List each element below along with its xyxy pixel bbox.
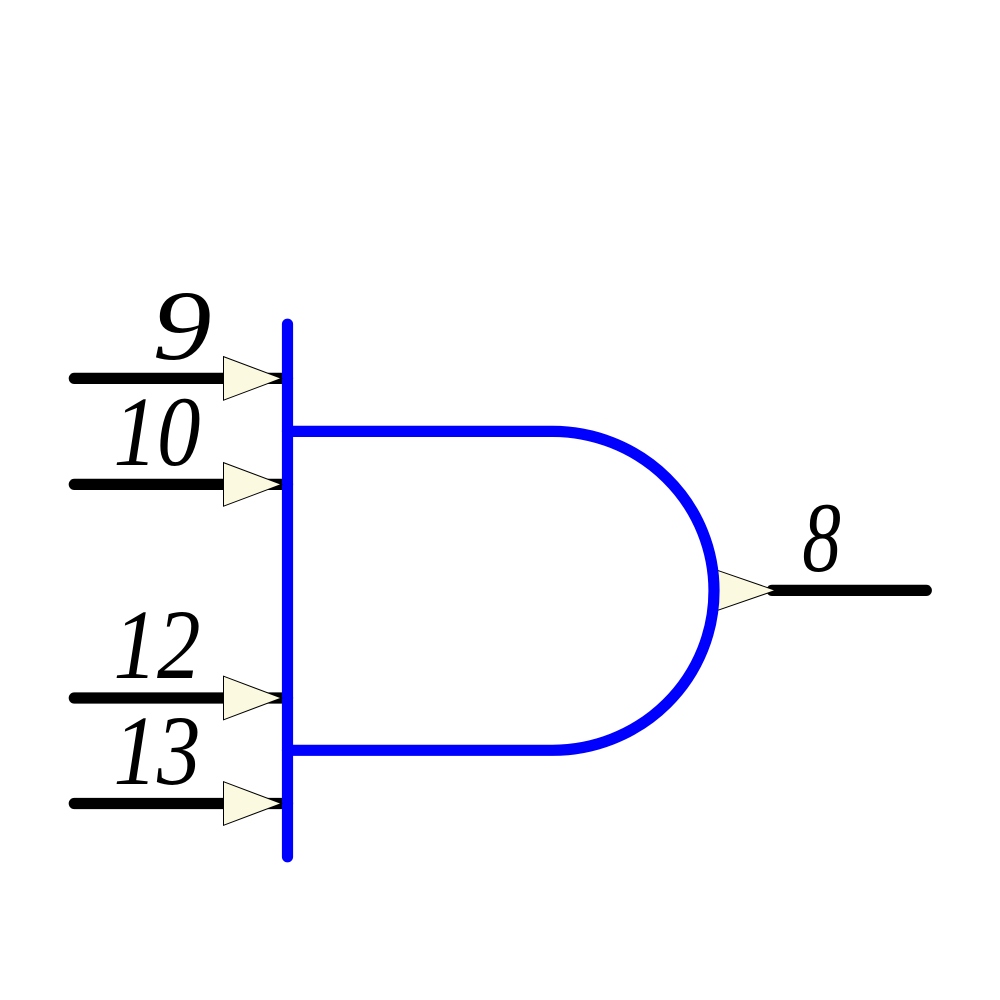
wire pin 12: [74, 692, 287, 703]
wire pin 9: [74, 373, 287, 384]
pin arrow 13: [224, 782, 282, 826]
svg-text:12: 12: [114, 589, 201, 700]
pin arrow 9: [224, 357, 282, 401]
pin arrow 10: [224, 463, 282, 507]
pin arrow 12: [224, 676, 282, 720]
svg-text:9: 9: [153, 270, 212, 381]
AND gate U1 body: [288, 431, 715, 750]
wire pin 13: [74, 798, 287, 809]
pin arrow 8 output: [717, 570, 776, 610]
wire pin 10: [74, 479, 287, 490]
AND gate U1 input bar: [282, 324, 293, 857]
svg-text:8: 8: [802, 482, 841, 593]
svg-text:13: 13: [114, 695, 201, 806]
svg-text:10: 10: [114, 376, 201, 487]
wire pin 8 output: [772, 585, 926, 596]
